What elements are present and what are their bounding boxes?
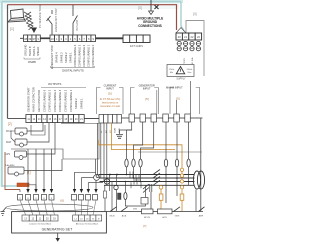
section bracket mains right xyxy=(196,88,200,115)
generating set box xyxy=(12,212,107,233)
svg-text:[6]: [6] xyxy=(61,199,65,203)
panel frame left edge xyxy=(7,5,9,119)
svg-text:SPARE 2: SPARE 2 xyxy=(64,52,68,63)
svg-text:MAINS INPUT: MAINS INPUT xyxy=(166,86,183,90)
arrowheads group B xyxy=(73,189,98,193)
terminal boxes row1 group A xyxy=(18,195,55,201)
svg-text:[7]: [7] xyxy=(143,224,147,228)
svg-text:CONFIGURABLE 0: CONFIGURABLE 0 xyxy=(91,44,95,67)
orange ring on N bus xyxy=(159,186,163,190)
genset terminal strip B xyxy=(73,215,102,221)
wire drops below buses xyxy=(105,182,112,212)
svg-text:RS485: RS485 xyxy=(28,61,36,64)
resistor ballast orange xyxy=(17,183,29,187)
energy meter loop xyxy=(125,182,145,207)
section bracket mains left xyxy=(170,88,174,115)
laptop service PC xyxy=(8,9,26,22)
svg-text:GROUND: GROUND xyxy=(24,45,28,56)
svg-text:CONFIGURABLE 3: CONFIGURABLE 3 xyxy=(78,44,82,67)
link circle N xyxy=(114,185,118,189)
digital input labels vertical xyxy=(24,44,96,69)
svg-text:GEN CONTACTOR: GEN CONTACTOR xyxy=(37,90,41,112)
fuse ring 4 xyxy=(164,159,167,167)
wire drops group A xyxy=(20,149,52,192)
wire battery negative teal top band xyxy=(0,0,183,3)
CT primary hatches xyxy=(130,172,141,189)
svg-text:MCB: MCB xyxy=(110,216,115,218)
battery fuse outline box xyxy=(186,21,204,77)
current strip labels below xyxy=(101,128,121,133)
breaker row line xyxy=(106,211,203,213)
wire orange CT runs xyxy=(99,123,182,212)
terminal boxes row1 group B xyxy=(72,195,98,201)
svg-text:EMERGENCY STOP: EMERGENCY STOP xyxy=(55,8,58,32)
svg-text:Generator or Load: Generator or Load xyxy=(100,105,120,108)
breaker flat box 2 xyxy=(158,209,173,214)
svg-text:IN PLANT: IN PLANT xyxy=(76,19,79,31)
generator symbol xyxy=(193,171,204,189)
svg-text:ACB: ACB xyxy=(162,216,167,219)
svg-text:Min: Min xyxy=(170,72,173,74)
svg-text:CONFIGURABLE 5: CONFIGURABLE 5 xyxy=(48,89,52,112)
emergency stop switch symbol xyxy=(47,10,53,35)
svg-text:CONFIGURABLE 2: CONFIGURABLE 2 xyxy=(82,44,86,67)
meter box xyxy=(141,198,148,205)
svg-text:TERM B: TERM B xyxy=(28,46,32,56)
svg-text:GENERATING SET: GENERATING SET xyxy=(42,228,74,232)
single terminal cells voltage inputs xyxy=(129,114,190,122)
svg-text:OUTPUTS: OUTPUTS xyxy=(48,82,61,86)
junction dots xyxy=(109,174,189,183)
wire mains input drops xyxy=(190,81,192,114)
svg-text:SPARE 4: SPARE 4 xyxy=(55,52,59,63)
svg-text:CONFIGURABLE 3: CONFIGURABLE 3 xyxy=(58,89,62,112)
bus line N xyxy=(104,184,195,186)
wire MCC loop xyxy=(27,123,43,132)
svg-text:SPARE 3: SPARE 3 xyxy=(59,52,63,63)
fuse ring 3 xyxy=(139,159,142,167)
wire GPS loop xyxy=(27,123,56,155)
svg-text:GENERATOR START: GENERATOR START xyxy=(26,87,30,112)
svg-text:GEN: GEN xyxy=(175,216,180,218)
svg-text:[2]: [2] xyxy=(8,122,12,126)
svg-text:CONFIGURABLE 1: CONFIGURABLE 1 xyxy=(87,44,91,67)
wire outputs strip to current group xyxy=(84,118,99,120)
generator sense verticals with fuses xyxy=(127,122,154,182)
section bracket generator left xyxy=(131,88,135,115)
bus end terminal circle xyxy=(96,175,99,178)
svg-text:Customer Terminal Block: Customer Terminal Block xyxy=(29,222,51,225)
svg-text:AMF: AMF xyxy=(199,215,204,218)
fuse ring 2 xyxy=(132,159,135,167)
wire gray gen aux xyxy=(138,151,202,153)
breaker flat box 1 xyxy=(142,209,154,214)
svg-text:SPARE 2: SPARE 2 xyxy=(74,98,78,109)
svg-text:24Vdc: 24Vdc xyxy=(187,69,193,71)
orange fuse right xyxy=(180,194,184,200)
svg-text:MCCB: MCCB xyxy=(144,217,151,219)
svg-text:CONFIGURABLE 6: CONFIGURABLE 6 xyxy=(42,89,46,112)
svg-text:Max: Max xyxy=(188,72,192,74)
digital inputs terminal strip group 1 xyxy=(24,35,41,42)
ground stub with X at top xyxy=(138,0,159,15)
fuse dark small xyxy=(118,193,122,200)
wire thick to RS box xyxy=(96,37,124,39)
svg-text:Alternator Terminal Block: Alternator Terminal Block xyxy=(76,222,98,225)
breaker switches right xyxy=(174,207,205,212)
wire alarm loop xyxy=(24,159,62,171)
battery connector terminal cells xyxy=(176,33,202,40)
wire links boxes to genset terminals xyxy=(20,200,96,215)
wire MAP loop xyxy=(27,123,49,143)
note CT orange text xyxy=(100,98,121,108)
svg-text:CONFIGURABLE 2: CONFIGURABLE 2 xyxy=(64,89,68,112)
bus line L1 xyxy=(99,174,195,176)
svg-text:CONFIGURABLE 1: CONFIGURABLE 1 xyxy=(69,89,73,112)
svg-text:[1]: [1] xyxy=(27,171,31,175)
wire resistor to drop xyxy=(29,185,36,189)
svg-text:GPS: GPS xyxy=(5,153,10,156)
svg-text:[4]: [4] xyxy=(193,12,197,16)
output labels vertical xyxy=(26,87,83,112)
breaker contact diagonals xyxy=(143,170,160,193)
RS485 termination box xyxy=(123,35,150,43)
battery screw terminals row 1 xyxy=(177,41,200,45)
svg-text:SUPPLY: SUPPLY xyxy=(176,78,186,81)
CT bars xyxy=(150,184,152,211)
pushbutton GPS xyxy=(5,123,55,160)
fuse ring 6 xyxy=(187,159,190,167)
section bracket current right xyxy=(119,88,123,115)
wire neutral link drops xyxy=(105,175,117,212)
fuse ring 5 xyxy=(175,159,178,167)
battery screw terminals row 2 xyxy=(177,47,200,51)
wire brown return left xyxy=(5,152,20,190)
svg-text:PC SERVICE TOOL: PC SERVICE TOOL xyxy=(38,4,42,28)
bus line L3 xyxy=(100,181,195,183)
svg-text:[5]: [5] xyxy=(176,97,180,101)
panel frame bottom-left segment xyxy=(8,118,26,120)
wire generator drop xyxy=(195,190,197,212)
svg-text:EMERGENCY STOP: EMERGENCY STOP xyxy=(50,45,54,69)
svg-text:INPUT: INPUT xyxy=(143,87,151,91)
wire ground current common xyxy=(116,122,132,140)
wire battery negative teal left run xyxy=(1,0,4,187)
teal fade wash xyxy=(4,3,179,9)
wire teal drop to battery connector xyxy=(181,2,184,31)
cable entry vee xyxy=(176,28,186,34)
screw slots row1 xyxy=(178,43,200,45)
connector arrowhead into strip xyxy=(31,28,37,34)
fuse small left xyxy=(104,191,107,198)
pushbutton MAP xyxy=(6,123,49,148)
digital inputs terminal strip group 2 xyxy=(50,35,96,42)
svg-text:DIGITAL INPUTS: DIGITAL INPUTS xyxy=(62,69,84,73)
wire junction circle N run xyxy=(94,175,100,181)
svg-text:INPUT: INPUT xyxy=(106,87,114,91)
svg-text:TERM A: TERM A xyxy=(32,46,36,56)
screw slots row2 xyxy=(178,48,200,50)
wire right corner drop xyxy=(200,118,202,211)
svg-text:[5]: [5] xyxy=(108,92,112,96)
wire output routing runs xyxy=(31,125,45,135)
svg-text:CONFIGURABLE 4: CONFIGURABLE 4 xyxy=(53,89,57,112)
genset terminal strip A xyxy=(22,215,58,221)
orange drop with fuse mid xyxy=(159,189,163,211)
terminal numbers digital strip xyxy=(24,37,94,41)
cable loom oval xyxy=(6,204,93,211)
svg-text:EXT GNDS: EXT GNDS xyxy=(130,45,143,48)
mains sense verticals with fuses xyxy=(166,122,189,203)
svg-text:SPARE 1: SPARE 1 xyxy=(68,52,72,63)
arrowheads group A xyxy=(26,189,53,193)
svg-text:A ALARM: A ALARM xyxy=(5,164,15,167)
pushbutton A-ALARM xyxy=(5,159,62,176)
svg-text:[1]: [1] xyxy=(10,27,14,31)
wire drops group B xyxy=(75,159,104,191)
wire battery positive red along top xyxy=(8,5,177,30)
supply warning box xyxy=(167,65,194,81)
in-plant switch symbol xyxy=(73,5,78,35)
ground at loom left xyxy=(1,208,7,216)
svg-text:SPARE 1: SPARE 1 xyxy=(79,98,83,109)
ground below genset xyxy=(57,233,59,238)
section bracket generator right xyxy=(154,88,158,115)
bracket digital inputs xyxy=(51,66,95,68)
link circle L3 xyxy=(104,179,109,184)
svg-text:12Vdc: 12Vdc xyxy=(169,69,175,71)
pushbutton MCC xyxy=(6,123,43,143)
svg-text:[5]: [5] xyxy=(145,97,149,101)
svg-text:SHIELD: SHIELD xyxy=(36,47,40,56)
section bracket current left xyxy=(97,88,101,115)
svg-text:CONFIGURABLE 4: CONFIGURABLE 4 xyxy=(73,44,77,67)
breaker MCB xyxy=(110,207,128,212)
orange CT secondary circles xyxy=(180,168,183,189)
programming cable twisted pair zigzag xyxy=(24,12,35,30)
svg-text:ACB: ACB xyxy=(122,215,127,218)
bus line L2 xyxy=(100,177,195,179)
svg-text:CONNECTIONS: CONNECTIONS xyxy=(138,24,162,28)
outputs terminal strip xyxy=(26,115,84,123)
svg-text:MAP: MAP xyxy=(6,141,12,144)
svg-text:MAINS CONTACTOR: MAINS CONTACTOR xyxy=(32,87,36,112)
bracket rs485 group xyxy=(24,58,40,60)
wire current input verticals xyxy=(98,123,107,185)
wire terminal row connecting line xyxy=(122,117,203,119)
current input terminal strip xyxy=(99,115,122,124)
wire link between strip groups xyxy=(40,37,50,39)
fuse ring 1 xyxy=(125,159,128,167)
svg-text:[3]: [3] xyxy=(138,6,142,10)
svg-text:COM: COM xyxy=(115,128,117,133)
wire strip to laptop arrow xyxy=(20,37,24,39)
meter fuse ring xyxy=(124,192,127,199)
